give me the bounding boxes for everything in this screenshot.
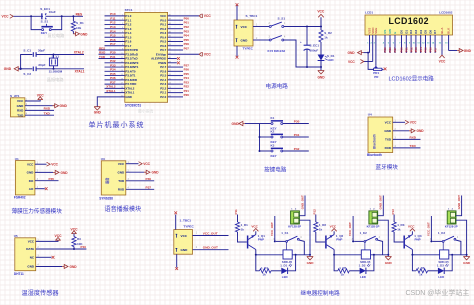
svg-text:D0: D0: [400, 30, 404, 34]
svg-text:DHT11: DHT11: [14, 272, 24, 276]
resistor 1_R1 1k (base): [235, 222, 239, 232]
svg-text:LCD1602显示电路: LCD1602显示电路: [389, 74, 435, 82]
wire relay 3 contact to rail: [456, 240, 461, 255]
wire to LED D1: [320, 42, 322, 55]
wire MCU right pin / net label P27: [168, 66, 183, 68]
svg-text:LCD1: LCD1: [365, 11, 373, 15]
svg-text:VCC: VCC: [55, 234, 63, 238]
wire key 1 branch: [260, 123, 272, 125]
ground (relay 3): [466, 255, 468, 257]
svg-text:P27: P27: [393, 47, 397, 52]
svg-text:VCC: VCC: [317, 9, 325, 13]
svg-text:GND: GND: [348, 51, 356, 55]
svg-text:1_K3: 1_K3: [438, 231, 446, 235]
svg-text:P32: P32: [294, 147, 300, 151]
resistor S_R1 10k: [72, 16, 74, 21]
wire LCD VSS to gnd: [369, 42, 371, 53]
wire MCU right pin / net label P26: [168, 70, 183, 72]
wire relay 3 base: [394, 232, 403, 242]
svg-text:TXD: TXD: [99, 55, 106, 59]
svg-text:D5: D5: [424, 30, 428, 34]
svg-text:10uF: 10uF: [49, 10, 56, 14]
resistor S_R2 1k: [319, 30, 323, 42]
svg-text:P37: P37: [146, 185, 152, 189]
svg-text:VCC: VCC: [71, 228, 79, 232]
svg-text:LCD1602: LCD1602: [388, 16, 428, 26]
svg-text:GND: GND: [4, 67, 12, 71]
wire MCU left pin 10: [99, 53, 125, 55]
svg-text:P11: P11: [234, 209, 238, 215]
wire relay 2 contact common down: [364, 242, 366, 250]
power port VCC (LCD backlight): [439, 55, 444, 58]
svg-text:Bluetooth: Bluetooth: [367, 153, 382, 157]
wire led 1 to coil: [288, 255, 296, 271]
svg-text:VCC: VCC: [241, 25, 248, 29]
svg-text:1_D2: 1_D2: [359, 263, 366, 267]
svg-text:1k: 1k: [263, 273, 267, 277]
wire MCU left pin 16: [105, 79, 125, 81]
svg-text:GND: GND: [307, 261, 315, 265]
svg-text:VCC: VCC: [27, 162, 34, 166]
wire LCD VDD to vcc: [372, 42, 374, 62]
wire terminal 3 pin1 / net GND_OUT: [456, 196, 462, 216]
wire MCU left pin 2: [105, 19, 125, 21]
svg-text:SYN6288: SYN6288: [99, 196, 113, 200]
svg-text:GND_OUT: GND_OUT: [203, 246, 218, 250]
svg-text:P12: P12: [313, 209, 317, 215]
svg-text:GND: GND: [232, 122, 240, 126]
svg-text:语音播报模块: 语音播报模块: [105, 205, 142, 213]
svg-text:VCC: VCC: [385, 120, 392, 124]
svg-text:VEE: VEE: [374, 28, 378, 34]
ground (relay 1): [309, 255, 311, 257]
svg-text:VCC_OUT: VCC_OUT: [426, 222, 430, 236]
potentiometer PR1 (contrast): [374, 68, 382, 70]
svg-text:TYPEC: TYPEC: [243, 47, 254, 51]
wire relay 2 base: [316, 232, 325, 242]
svg-text:TXD: TXD: [118, 179, 125, 183]
svg-text:P10: P10: [81, 245, 87, 249]
wire MCU right pin / net label P06: [168, 45, 183, 47]
node cap top: [306, 26, 308, 28]
wire xtal1: [36, 68, 84, 70]
svg-text:PNP: PNP: [415, 238, 421, 242]
svg-text:R3: R3: [77, 237, 81, 241]
wire relay 3 collector: [411, 250, 413, 255]
svg-text:S_JP1: S_JP1: [10, 94, 20, 98]
svg-text:PNP: PNP: [336, 238, 342, 242]
resistor 1_R2 1k (base): [314, 222, 318, 232]
wire LCD VEE to pot: [375, 42, 377, 66]
svg-text:1_K2: 1_K2: [360, 231, 368, 235]
svg-text:单片机最小系统: 单片机最小系统: [89, 120, 145, 129]
wire MCU right pin / net label P21: [168, 92, 183, 94]
wire reset main: [13, 15, 83, 17]
svg-text:GND: GND: [181, 248, 189, 252]
wire key 2 to net / net label P31: [283, 136, 309, 138]
svg-text:晶振电路: 晶振电路: [47, 76, 65, 83]
svg-text:TXD: TXD: [17, 113, 24, 117]
wire MCU right pin / net label P22: [168, 87, 183, 89]
svg-text:蓝牙模块: 蓝牙模块: [376, 163, 399, 171]
svg-text:XTAL1: XTAL1: [106, 89, 116, 93]
wire terminal 1 pin2 to rail: [299, 220, 310, 255]
svg-text:P20: P20: [184, 93, 190, 97]
transistor 1_Q3 PNP: [403, 236, 405, 249]
svg-text:RXD: RXD: [385, 146, 392, 150]
svg-text:1_D1: 1_D1: [280, 263, 287, 267]
svg-text:1_R2: 1_R2: [319, 223, 327, 227]
svg-text:1_K1: 1_K1: [281, 231, 289, 235]
wire LED to gnd: [320, 61, 322, 68]
wire power vcc: [253, 26, 269, 28]
svg-text:1k: 1k: [324, 36, 328, 40]
svg-text:K2: K2: [271, 129, 275, 133]
LED 1_D3 (relay indicator): [438, 268, 444, 274]
ground (JP1): [53, 104, 59, 108]
wire relay 1 input: [237, 215, 239, 223]
svg-text:VCC: VCC: [143, 162, 150, 166]
transistor 1_Q2 PNP: [325, 236, 327, 249]
svg-text:11.0592M: 11.0592M: [49, 70, 63, 74]
wire relay 2 rail: [334, 254, 361, 256]
wire DHT vcc / power port VCC: [36, 240, 58, 241]
wire MCU left pin 9: [99, 49, 125, 51]
svg-text:GND: GND: [61, 171, 69, 175]
wire key 2 branch: [260, 136, 272, 138]
svg-text:S_R2: S_R2: [324, 31, 332, 35]
wire MCU left pin 4: [105, 28, 125, 30]
wire terminal 1 pin1 / net GND_OUT: [299, 196, 305, 216]
wire relay 1 contact common down: [286, 242, 288, 250]
svg-text:VCC: VCC: [410, 121, 417, 125]
svg-text:LCD1602: LCD1602: [439, 11, 453, 15]
wire relay 1 collector: [255, 250, 257, 255]
wire MCU left pin 7: [105, 40, 125, 42]
svg-text:GND: GND: [241, 39, 249, 43]
svg-text:LED: LED: [438, 275, 444, 279]
svg-text:S_Y1: S_Y1: [52, 54, 60, 58]
wire MCU left pin 8: [105, 45, 125, 47]
svg-text:P03: P03: [414, 47, 418, 52]
svg-text:语音: 语音: [105, 177, 110, 184]
svg-text:D3: D3: [414, 30, 418, 34]
svg-text:VCC: VCC: [348, 60, 355, 64]
wire power gnd: [253, 39, 269, 41]
capacitor S_EC1 10uF (inline electrolytic): [41, 13, 42, 19]
wire voice vcc / power port VCC: [126, 163, 139, 165]
node reset left junction: [30, 15, 32, 17]
svg-text:AO: AO: [29, 187, 34, 191]
svg-text:GND: GND: [27, 171, 35, 175]
svg-text:GND: GND: [60, 104, 68, 108]
wire crystal gnd trunk: [19, 55, 33, 69]
svg-text:S_S1: S_S1: [278, 16, 286, 20]
svg-text:1k: 1k: [341, 273, 345, 277]
wire xtal2: [36, 54, 84, 56]
wire pressure gnd / ground: [35, 171, 53, 173]
svg-text:100uF: 100uF: [310, 48, 319, 52]
svg-text:P13: P13: [391, 209, 395, 215]
wire MCU right pin / net label P00: [168, 19, 183, 21]
svg-text:GND: GND: [317, 75, 325, 79]
svg-text:VCC: VCC: [330, 224, 337, 228]
svg-text:GND: GND: [384, 129, 392, 133]
svg-text:VCC_OUT: VCC_OUT: [203, 232, 218, 236]
svg-text:P00: P00: [400, 47, 404, 52]
wire MCU ALE pin 30 (no connect): [168, 58, 177, 60]
ground (MCU): [94, 107, 100, 110]
svg-text:1_R4: 1_R4: [261, 266, 268, 270]
svg-text:FSR402: FSR402: [14, 196, 26, 200]
svg-text:S_EC1: S_EC1: [310, 44, 320, 48]
svg-text:TYPEC: TYPEC: [183, 225, 194, 229]
svg-text:1_R1: 1_R1: [241, 223, 249, 227]
wire MCU right pin / net label P05: [168, 40, 183, 42]
svg-text:BLA: BLA: [440, 27, 444, 34]
LCD pin stubs: [369, 35, 371, 42]
wire relay 3 contact common down: [442, 242, 444, 250]
wire pressure DO / net label P35: [35, 180, 59, 182]
svg-text:KF128-2P: KF128-2P: [445, 225, 458, 229]
svg-text:D6: D6: [428, 30, 432, 34]
svg-text:P01: P01: [405, 47, 409, 52]
svg-text:VCC: VCC: [408, 224, 415, 228]
relay coil 1_RL2 (body): [361, 250, 370, 259]
svg-text:VCC: VCC: [28, 240, 35, 244]
svg-text:薄膜压力传感器模块: 薄膜压力传感器模块: [12, 207, 63, 215]
wire relay 1 led branch: [256, 255, 260, 271]
svg-text:GND: GND: [94, 110, 102, 114]
svg-text:温湿度传感器: 温湿度传感器: [22, 289, 60, 297]
wire pressure AO (no connect): [35, 188, 45, 190]
wire relay 2 contact to rail: [377, 240, 382, 255]
wire S_TBC1 shell bottom (no connect): [236, 46, 238, 56]
svg-text:KF128-2P: KF128-2P: [288, 225, 301, 229]
wire 1_TBC1 shell top (no connect): [175, 215, 177, 230]
wire key 3 branch: [260, 150, 272, 152]
wire BT gnd / ground: [393, 130, 409, 132]
svg-text:VCC: VCC: [37, 94, 45, 98]
svg-text:GND_OUT: GND_OUT: [457, 195, 461, 209]
ground (relay 2): [387, 255, 389, 257]
wire terminal 2 pin2 to rail: [378, 220, 389, 255]
svg-text:P35: P35: [49, 177, 55, 181]
svg-text:VCC: VCC: [2, 15, 10, 19]
resistor 1_R4 1k (led): [260, 269, 272, 273]
svg-text:GND: GND: [118, 170, 126, 174]
svg-text:P30: P30: [294, 119, 300, 123]
svg-text:1k: 1k: [319, 227, 323, 231]
wire MCU PSEN pin 29 (no connect): [168, 62, 177, 64]
svg-text:LED: LED: [282, 275, 288, 279]
svg-text:DATA: DATA: [26, 247, 35, 251]
svg-text:CSDN @毕业学站主: CSDN @毕业学站主: [406, 288, 470, 297]
svg-text:S_C2: S_C2: [23, 72, 31, 76]
wire MCU right pin / net label P04: [168, 36, 183, 38]
wire relay 1 contact to rail: [299, 240, 304, 255]
capacitor S_EC1 100uF (power): [306, 27, 308, 46]
svg-text:RXD: RXD: [410, 136, 417, 140]
power port VCC (JP1): [38, 97, 43, 100]
relay coil 1_RL3 (body): [440, 250, 449, 259]
svg-text:STC1: STC1: [125, 8, 133, 12]
svg-text:KY2 DW-ES2: KY2 DW-ES2: [268, 49, 286, 53]
relay coil 1_RL1 (body): [283, 250, 292, 259]
svg-text:P06: P06: [429, 47, 433, 52]
svg-text:STC89C51: STC89C51: [125, 103, 141, 107]
svg-text:P04: P04: [419, 47, 423, 52]
svg-text:RW: RW: [388, 29, 392, 34]
svg-text:P31: P31: [110, 55, 116, 59]
wire voice rxd / net label P37: [126, 188, 154, 190]
ground (LCD backlight): [457, 49, 463, 53]
ground (reset resistor): [72, 31, 74, 34]
svg-text:GND_OUT: GND_OUT: [300, 195, 304, 209]
wire relay 3 led branch: [412, 255, 416, 271]
capacitor S_C1 30pF: [32, 52, 34, 57]
svg-text:DO: DO: [29, 179, 34, 183]
svg-text:P26: P26: [388, 47, 392, 52]
svg-text:GND: GND: [17, 104, 25, 108]
svg-text:复位电路: 复位电路: [48, 32, 66, 39]
svg-text:继电器控制电路: 继电器控制电路: [301, 289, 341, 297]
svg-text:K1: K1: [271, 116, 275, 120]
crystal S_Y1 11.0592M: [53, 55, 55, 59]
svg-text:BLK: BLK: [447, 27, 451, 34]
svg-text:RES: RES: [76, 12, 83, 16]
svg-text:VCC: VCC: [204, 14, 212, 18]
svg-text:1k: 1k: [397, 227, 401, 231]
power port VCC (relay 1): [255, 231, 257, 234]
svg-text:XTAL1: XTAL1: [75, 69, 85, 73]
wire MCU GND pin 20: [97, 97, 125, 107]
svg-text:GND: GND: [385, 261, 393, 265]
svg-text:P31: P31: [294, 133, 300, 137]
wire 1_TBC1 gnd / net label GND_OUT: [193, 249, 229, 251]
wire MCU right pin / net label P24: [168, 79, 183, 81]
wire MCU right pin / net label P01: [168, 23, 183, 25]
svg-text:VCC: VCC: [251, 224, 258, 228]
wire JP1 rxd / net label RXD: [25, 109, 54, 111]
resistor 1_R3 1k (base): [392, 222, 396, 232]
svg-text:U3: U3: [101, 157, 105, 161]
svg-text:30pF: 30pF: [38, 49, 45, 53]
wire relay 3 rail: [412, 254, 439, 256]
svg-text:GND: GND: [152, 171, 160, 175]
wire MCU right pin / net label P02: [168, 28, 183, 30]
wire relay 3 input: [393, 215, 395, 223]
wire MCU left pin 3: [105, 23, 125, 25]
power port VCC (relay 2): [333, 231, 335, 234]
svg-text:VCC: VCC: [181, 234, 188, 238]
wire MCU VCC pin 40 / power port VCC: [168, 15, 199, 17]
svg-text:GND: GND: [80, 32, 88, 36]
svg-text:S_R1: S_R1: [76, 21, 84, 25]
svg-text:TXD: TXD: [385, 138, 392, 142]
wire key 3 to net / net label P32: [283, 150, 309, 152]
wire MCU EA pin 31 / power port VCC: [168, 53, 199, 55]
svg-text:RS: RS: [383, 30, 387, 34]
switch S_S1 (power, pole 2): [269, 39, 271, 41]
wire MCU left pin 6: [105, 36, 125, 38]
wire MCU left pin 18: [105, 87, 125, 89]
svg-text:按键电路: 按键电路: [264, 166, 287, 174]
svg-text:30pF: 30pF: [38, 63, 45, 67]
svg-text:VCC_OUT: VCC_OUT: [270, 222, 274, 236]
svg-text:1k: 1k: [419, 273, 423, 277]
svg-text:VCC: VCC: [439, 59, 446, 63]
svg-text:P02: P02: [409, 47, 413, 52]
capacitor S_C2 30pF: [32, 67, 34, 72]
resistor R3 10K (pull-up): [73, 234, 75, 237]
resistor 1_R6 1k (led): [416, 269, 428, 273]
svg-text:RXD: RXD: [17, 109, 24, 113]
svg-text:D1: D1: [404, 30, 408, 34]
ground (power circuit): [320, 67, 322, 71]
svg-text:K3: K3: [271, 143, 275, 147]
svg-text:S_S1: S_S1: [41, 20, 49, 24]
svg-text:电源电路: 电源电路: [266, 82, 289, 90]
svg-text:D2: D2: [409, 30, 413, 34]
wire JP1 gnd: [25, 105, 53, 107]
wire relay 2 input: [315, 215, 317, 223]
wire power gnd rail: [284, 40, 321, 67]
resistor 1_R5 1k (led): [338, 269, 350, 273]
svg-text:RXD: RXD: [118, 187, 125, 191]
svg-text:VCC: VCC: [17, 99, 24, 103]
power port VCC (pull-up): [71, 231, 76, 234]
svg-text:最小系统: 最小系统: [138, 109, 153, 114]
wire MCU left pin 19: [105, 92, 125, 94]
svg-text:VCC: VCC: [51, 163, 58, 167]
wire led 3: [428, 270, 438, 272]
wire keys trunk: [245, 123, 260, 125]
wire LCD BLA to vcc: [441, 42, 443, 56]
wire DHT NC (no connect): [36, 256, 52, 258]
svg-text:D4: D4: [419, 30, 423, 34]
wire terminal 2 pin1 / net GND_OUT: [378, 196, 384, 216]
wire MCU right pin / net label P20: [168, 96, 183, 98]
wire MCU left pin 13: [105, 66, 125, 68]
svg-text:P17: P17: [110, 42, 116, 46]
wire MCU left pin 11: [99, 58, 125, 60]
node reset right junction: [61, 15, 63, 17]
transistor 1_Q1 PNP: [247, 236, 249, 249]
svg-text:LED: LED: [328, 58, 335, 62]
wire JP1 txd / net label TXD: [25, 114, 54, 116]
wire terminal 3 pin2 to rail: [456, 220, 467, 255]
svg-text:VCC: VCC: [118, 162, 125, 166]
svg-text:RXD: RXD: [44, 107, 51, 111]
svg-text:S_C1: S_C1: [23, 49, 31, 53]
switch S_S1 KEY (reset button): [42, 29, 44, 31]
wire BT rxd / net label TXD: [393, 147, 421, 149]
svg-text:U4: U4: [368, 113, 372, 117]
svg-text:1_R5: 1_R5: [339, 266, 346, 270]
svg-text:S_TBC1: S_TBC1: [246, 14, 258, 18]
wire MCU left pin 1: [105, 15, 125, 17]
wire led 1: [271, 270, 281, 272]
svg-text:XTAL2: XTAL2: [74, 50, 84, 54]
svg-text:+: +: [300, 40, 302, 44]
wire 1_TBC1 shell bottom (no connect): [176, 254, 178, 267]
wire MCU right pin / net label P23: [168, 83, 183, 85]
svg-text:P25: P25: [383, 47, 387, 52]
wire JP1 vcc: [25, 100, 40, 101]
svg-text:D7: D7: [433, 30, 437, 34]
wire power vcc after switch: [284, 26, 321, 28]
